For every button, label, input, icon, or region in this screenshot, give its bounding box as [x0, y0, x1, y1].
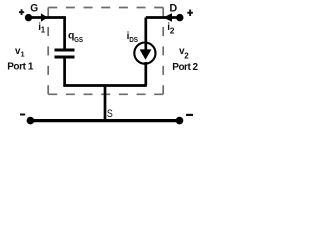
capacitor qGS top plate	[55, 48, 75, 51]
svg-text:Port 2: Port 2	[172, 62, 198, 73]
svg-text:2: 2	[184, 51, 189, 60]
svg-text:2: 2	[170, 25, 175, 35]
svg-text:GS: GS	[74, 35, 83, 44]
label + (port 2 top polarity)	[187, 10, 193, 17]
current source iDS circle	[134, 43, 155, 64]
label + (port 1 top polarity)	[19, 9, 24, 15]
wire: bottom rail between port terminals	[30, 119, 179, 122]
wire: source stub S from internal rail to bottom rail	[104, 86, 107, 121]
label minus (port 2 bottom polarity)	[186, 114, 193, 116]
node: bottom-right terminal dot	[176, 117, 184, 125]
node: bottom-left terminal dot	[27, 117, 35, 125]
wire: gate terminal G to capacitor top corner	[29, 18, 65, 49]
svg-text:S: S	[107, 108, 113, 120]
wire: drain corner down into current source	[144, 18, 147, 50]
node D terminal dot	[176, 14, 183, 21]
current arrow i1 on gate wire (pointing right)	[41, 13, 48, 22]
svg-text:1: 1	[21, 49, 25, 58]
wire: current source bottom to internal rail	[144, 62, 147, 86]
svg-text:DS: DS	[129, 35, 138, 44]
svg-text:Port 1: Port 1	[7, 62, 34, 73]
two-port boundary dashed box: bottom edge	[48, 93, 163, 95]
node G terminal dot	[25, 14, 32, 21]
two-port boundary dashed box: right edge	[162, 8, 164, 95]
wire: capacitor bottom plate to internal bottom rail	[65, 59, 147, 86]
label minus (port 1 bottom polarity)	[20, 114, 25, 116]
current arrow i2 on drain wire (pointing left)	[163, 13, 172, 22]
svg-text:G: G	[30, 3, 38, 15]
current source iDS arrow (pointing down)	[140, 49, 152, 59]
capacitor qGS bottom plate	[55, 55, 75, 58]
svg-text:D: D	[169, 2, 177, 14]
two-port boundary dashed box: left edge	[47, 8, 49, 95]
svg-text:1: 1	[41, 26, 46, 35]
two-port boundary dashed box: top edge	[48, 7, 163, 9]
wire: current source corner to drain terminal D	[146, 16, 180, 19]
